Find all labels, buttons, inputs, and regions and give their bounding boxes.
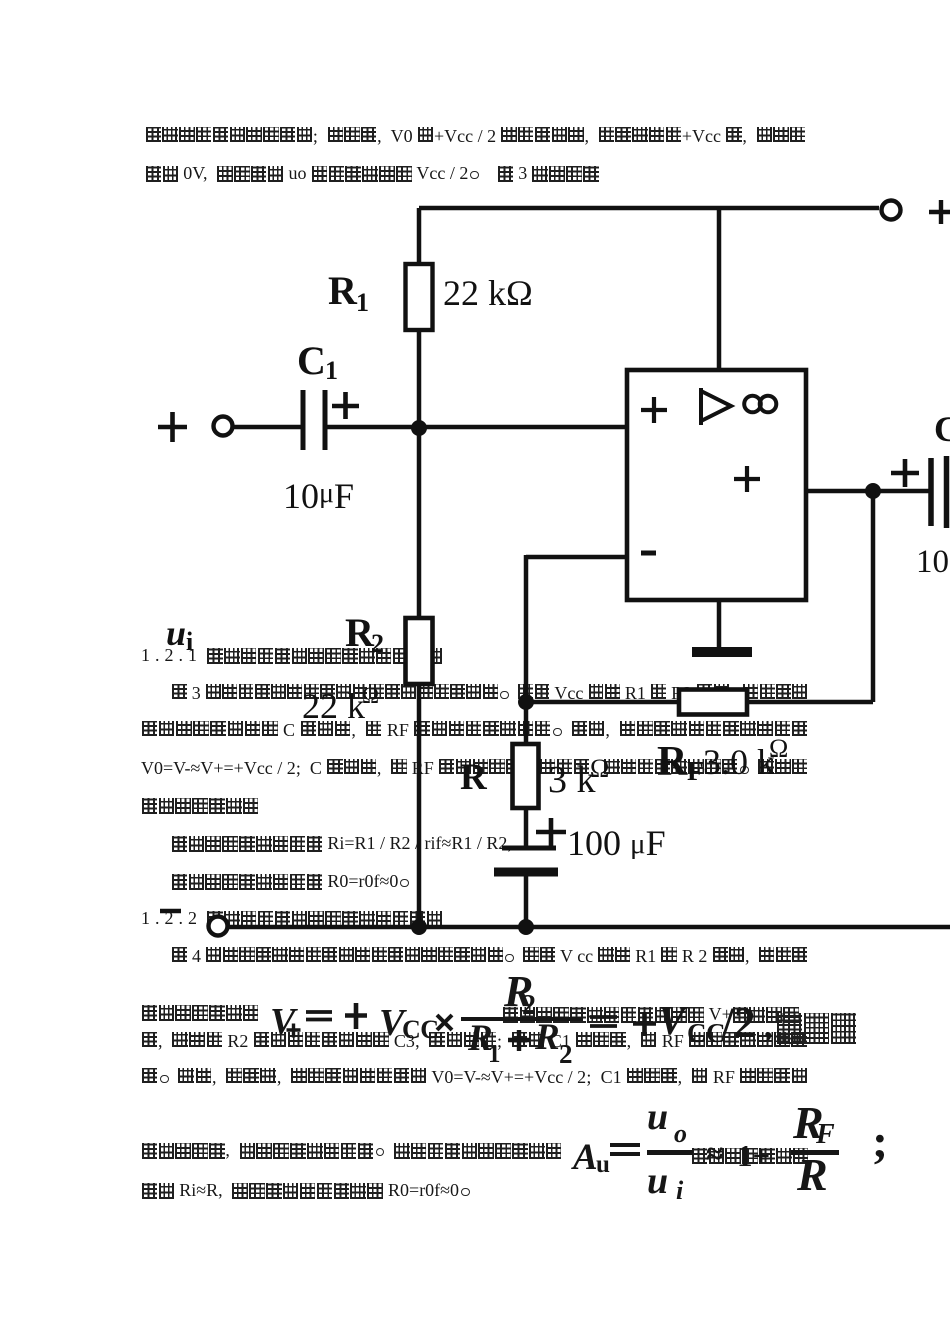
- F1 fullwidth comma: [764, 1010, 773, 1044]
- op-amp U1 body: [627, 370, 806, 600]
- svg-text:Ω: Ω: [362, 683, 379, 708]
- ground bar: [692, 647, 752, 657]
- wire feedback from output node down: [871, 491, 876, 702]
- wire input to C1: [233, 425, 301, 430]
- svg-text:22 k: 22 k: [302, 686, 365, 726]
- wire op-amp output: [806, 489, 929, 494]
- label - (inverting input): [641, 551, 656, 556]
- svg-text:C: C: [934, 409, 950, 449]
- label + (output polarity inside op-amp): [734, 466, 760, 492]
- label + (output capacitor polarity): [891, 459, 919, 487]
- resistor R1: [406, 264, 433, 330]
- F1 numerator R2: [504, 970, 533, 1014]
- wire RF to node B: [526, 700, 679, 705]
- svg-text:10: 10: [916, 544, 949, 580]
- node R2-bottom junction dot: [411, 919, 427, 935]
- F2 denominator ui: [647, 1162, 668, 1200]
- wire feedback horizontal to RF: [747, 700, 873, 705]
- F2 1+: [737, 1140, 770, 1171]
- svg-text:100 μF: 100 μF: [567, 823, 666, 863]
- F2 approx equals: [706, 1138, 723, 1169]
- F1 subscript plus: [285, 1022, 302, 1039]
- svg-text:C: C: [297, 338, 326, 383]
- label infinity gain: [744, 396, 761, 413]
- F2 A: [573, 1139, 598, 1176]
- F1 /2: [722, 1002, 755, 1045]
- F1 CC subscript 2: [687, 1020, 725, 1047]
- wire inverting input: [526, 555, 627, 560]
- F1 fraction bar: [461, 1017, 583, 1022]
- resistor RF: [679, 690, 747, 715]
- label + (C1 polarity): [332, 392, 359, 419]
- node A junction dot: [411, 420, 427, 436]
- capacitor C3 bottom plate: [494, 868, 558, 877]
- terminal input bottom circle: [209, 917, 228, 936]
- F2 fraction bar: [647, 1150, 693, 1155]
- F2 equals: [609, 1142, 641, 1158]
- svg-text:2: 2: [371, 629, 384, 658]
- label + (Vcc polarity, clipped at right edge): [929, 200, 950, 224]
- ground stem: [717, 600, 722, 648]
- F1 V (of first Vcc): [379, 1004, 404, 1042]
- wire bottom rail: [228, 925, 950, 930]
- resistor R2: [406, 618, 433, 684]
- svg-text:Ω: Ω: [590, 754, 609, 783]
- F2 u subscript: [596, 1152, 610, 1177]
- terminal input circle: [214, 417, 233, 436]
- F1 denominator R1 + R2: [468, 1020, 493, 1057]
- label + (noninverting input): [641, 397, 667, 423]
- F2 denominator R: [797, 1152, 828, 1198]
- wire node A to op-amp noninverting input: [325, 425, 627, 430]
- svg-text:R: R: [328, 268, 358, 313]
- svg-text:R: R: [657, 739, 688, 785]
- capacitor C3 top plate: [502, 846, 556, 851]
- F2 numerator RF: [793, 1100, 824, 1146]
- svg-text:3.0 k: 3.0 k: [703, 742, 775, 782]
- capacitor C2 output plates (clipped at right edge): [931, 456, 947, 528]
- node B junction dot: [518, 694, 534, 710]
- terminal +Vcc output circle: [882, 201, 901, 220]
- F1 big plus: [344, 1002, 368, 1030]
- resistor R: [513, 744, 539, 808]
- F1 second equals: [590, 1015, 618, 1030]
- wire top Vcc rail: [419, 206, 879, 211]
- F1 V (of second Vcc): [658, 1000, 685, 1041]
- wire R to capacitor C3: [524, 808, 529, 848]
- label + (C3 polarity): [536, 818, 566, 846]
- F1 V (of V+): [270, 1003, 295, 1041]
- svg-text:i: i: [186, 627, 193, 656]
- svg-text:F: F: [687, 756, 704, 786]
- wire Vcc stem to op-amp: [717, 208, 722, 370]
- wire node A down to R2: [417, 428, 422, 618]
- F1 first equals: [306, 1008, 333, 1024]
- svg-text:3 k: 3 k: [548, 759, 596, 801]
- svg-text:1: 1: [356, 288, 369, 317]
- wire C3 to bottom rail: [524, 876, 529, 927]
- node C3-bottom junction dot: [518, 919, 534, 935]
- label - (bottom input polarity): [160, 909, 181, 913]
- F2 fullwidth semicolon: [872, 1118, 888, 1166]
- svg-text:1: 1: [325, 356, 338, 385]
- F1 overlapping scan text: da dian lu (3 large hanzi): [776, 1013, 857, 1047]
- wire R2 to bottom rail: [417, 684, 422, 927]
- svg-text:Ω: Ω: [769, 734, 788, 763]
- svg-text:u: u: [166, 613, 186, 653]
- wire R1 top stem: [417, 208, 422, 264]
- svg-text:R: R: [460, 757, 488, 798]
- label + (input polarity): [158, 412, 187, 442]
- F2 numerator uo: [647, 1098, 668, 1136]
- wire R1 bottom stem to node A: [417, 330, 422, 428]
- F2 fraction bar: [791, 1150, 839, 1155]
- svg-text:10μF: 10μF: [283, 476, 354, 516]
- F1 CC subscript: [402, 1017, 439, 1043]
- capacitor C1 plates: [303, 390, 325, 450]
- op-amp gain triangle: [701, 388, 731, 425]
- wire inverting branch down to node B: [524, 555, 529, 744]
- svg-text:22 kΩ: 22 kΩ: [443, 273, 533, 313]
- F1 multiply sign: [435, 1013, 455, 1032]
- F1 second plus: [632, 1011, 657, 1037]
- node output junction dot: [865, 483, 881, 499]
